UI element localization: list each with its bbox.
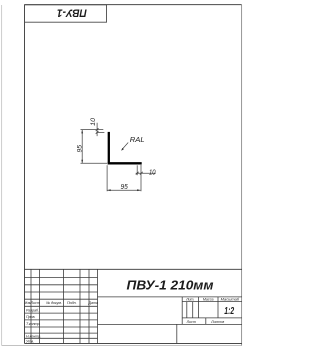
svg-text:№ докум.: № докум. xyxy=(46,301,62,305)
profile vertical leg xyxy=(108,132,110,165)
svg-text:Масштаб: Масштаб xyxy=(221,298,240,302)
svg-text:10: 10 xyxy=(90,117,97,125)
svg-text:95: 95 xyxy=(120,182,128,191)
dim10right dimension line xyxy=(136,172,156,174)
corner designation box xyxy=(25,5,107,22)
svg-text:10: 10 xyxy=(149,167,156,176)
titleblock left rows xyxy=(25,278,98,339)
svg-text:Подп.: Подп. xyxy=(67,301,77,305)
svg-text:ПВУ-1 210мм: ПВУ-1 210мм xyxy=(127,279,214,293)
frame bottom line xyxy=(25,343,243,345)
svg-text:Лист: Лист xyxy=(186,320,196,324)
svg-text:Разраб.: Разраб. xyxy=(26,308,39,312)
titleblock left columns xyxy=(31,269,98,343)
svg-text:95: 95 xyxy=(77,145,84,153)
frame top line xyxy=(25,4,242,6)
svg-text:Н.контр.: Н.контр. xyxy=(26,334,41,338)
svg-text:Пров.: Пров. xyxy=(26,315,35,319)
RAL leader line xyxy=(122,143,128,150)
svg-text:Утв.: Утв. xyxy=(26,340,34,344)
dim10top tick 2 xyxy=(96,131,99,134)
svg-text:Дата: Дата xyxy=(87,301,97,305)
dim95bottom dimension line xyxy=(107,189,141,191)
dim10right tick 1 xyxy=(136,172,139,175)
dim95left dimension line xyxy=(81,130,83,164)
dim95bottom right extension line xyxy=(140,165,142,192)
paper bottom edge xyxy=(2,344,242,346)
dim95left bottom arrow xyxy=(81,160,83,164)
svg-text:RAL: RAL xyxy=(130,135,145,144)
dim95bottom left extension line xyxy=(106,165,108,191)
titleblock right verticals xyxy=(177,297,218,344)
svg-text:1:2: 1:2 xyxy=(224,306,234,317)
svg-text:ПВУ-1: ПВУ-1 xyxy=(57,7,87,19)
svg-text:Масса: Масса xyxy=(203,298,214,302)
dim10top extension line B xyxy=(97,131,105,133)
frame left line xyxy=(24,5,26,344)
svg-text:Лист: Лист xyxy=(30,301,40,305)
titleblock top line xyxy=(25,268,243,270)
dim95left top arrow xyxy=(81,130,83,134)
svg-text:Лит.: Лит. xyxy=(185,298,194,302)
RAL leader arrow xyxy=(121,148,124,151)
dim10top tick 1 xyxy=(96,128,99,131)
profile horizontal leg xyxy=(108,162,142,164)
dim10right extension line 1 xyxy=(136,165,138,175)
dim95bottom left arrow xyxy=(107,189,111,191)
paper left edge xyxy=(1,5,3,345)
dim10top dimension line xyxy=(96,123,98,136)
dim10top extension line A xyxy=(81,129,104,131)
paper right edge xyxy=(241,5,243,346)
svg-text:Листов: Листов xyxy=(210,320,224,324)
dim95bottom right arrow xyxy=(137,189,141,191)
titleblock right horizontals xyxy=(98,297,243,325)
dim95left bottom extension line xyxy=(81,162,108,164)
dim10right tick 2 xyxy=(140,172,143,175)
svg-text:Т.контр.: Т.контр. xyxy=(26,322,41,326)
